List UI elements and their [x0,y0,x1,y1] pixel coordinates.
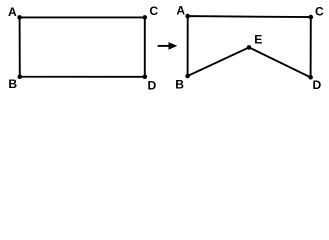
node C (left rectangle top-right vertex dot) [143,15,148,20]
label B (left) [8,77,17,91]
label C (left) [149,4,158,18]
svg-text:B: B [175,77,184,91]
node C (right shape top-right vertex dot) [309,15,314,20]
svg-text:B: B [8,77,17,91]
label D (right) [313,78,322,92]
wire: right pentagon outline A-C-D-E-B [188,16,311,77]
node D (left rectangle bottom-right vertex dot) [143,75,148,80]
node E (right shape middle vertex dot) [247,45,252,50]
svg-text:D: D [148,79,157,93]
svg-text:C: C [315,4,324,18]
node B (left rectangle bottom-left vertex dot) [18,74,23,79]
svg-text:C: C [149,4,158,18]
wire: left rectangle outline A-C-D-B [20,17,145,76]
node A (right shape top-left vertex dot) [185,14,190,19]
svg-text:A: A [176,3,185,17]
svg-text:A: A [8,5,17,19]
arrow (transformation arrow) [158,42,178,50]
svg-text:E: E [254,33,262,47]
node B (right shape bottom-left vertex dot) [185,74,190,79]
node A (left rectangle top-left vertex dot) [17,15,22,20]
label B (right) [175,77,184,91]
label A (left) [8,5,17,19]
label D (left) [148,79,157,93]
label A (right) [176,3,185,17]
label E (right) [254,33,262,47]
node D (right shape bottom-right vertex dot) [308,75,313,80]
svg-text:D: D [313,78,322,92]
label C (right) [315,4,324,18]
